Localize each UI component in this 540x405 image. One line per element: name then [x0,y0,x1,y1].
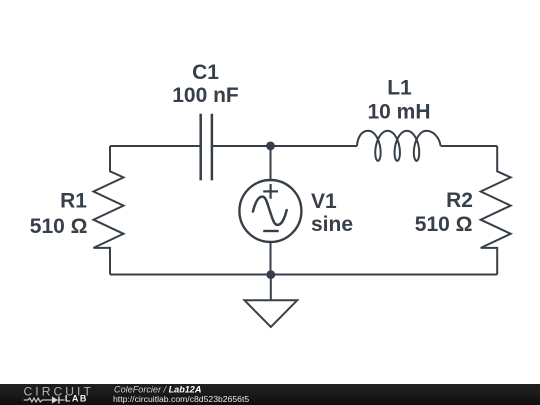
svg-text:R1: R1 [60,190,87,213]
svg-text:510 Ω: 510 Ω [30,215,88,238]
svg-text:L1: L1 [387,76,412,99]
svg-text:http://circuitlab.com/c8d523b2: http://circuitlab.com/c8d523b2656t5 [113,394,249,404]
svg-text:R2: R2 [446,189,473,212]
svg-text:C1: C1 [192,61,219,84]
svg-text:V1: V1 [311,190,337,213]
svg-text:ColeForcier / Lab12A: ColeForcier / Lab12A [114,384,201,394]
svg-text:10 mH: 10 mH [367,100,430,123]
svg-text:sine: sine [311,213,353,236]
svg-text:100 nF: 100 nF [172,84,239,107]
svg-text:510 Ω: 510 Ω [415,213,473,236]
svg-text:LAB: LAB [65,394,88,404]
